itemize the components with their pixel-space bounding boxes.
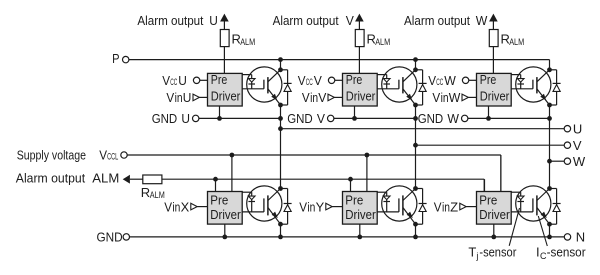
svg-text:V: V [162,73,170,88]
svg-text:CC: CC [436,77,443,87]
svg-text:j: j [475,251,478,261]
svg-text:V: V [314,73,322,88]
svg-text:ALM: ALM [92,170,119,185]
svg-text:-sensor: -sensor [547,245,587,260]
svg-text:X: X [181,199,190,214]
svg-text:ALM: ALM [375,37,390,47]
svg-text:Pre: Pre [210,193,228,208]
svg-text:Alarm output: Alarm output [404,13,470,28]
svg-text:Pre: Pre [479,193,497,208]
svg-text:Pre: Pre [480,72,497,87]
svg-text:R: R [141,185,150,200]
svg-text:V: V [318,90,326,105]
svg-text:Pre: Pre [346,72,363,87]
svg-text:W: W [476,13,488,28]
svg-text:V: V [302,90,310,105]
svg-text:Driver: Driver [210,207,241,222]
svg-text:CCL: CCL [107,152,118,162]
svg-text:Supply voltage: Supply voltage [17,148,86,163]
svg-text:Driver: Driver [479,207,510,222]
svg-text:Driver: Driver [211,88,241,103]
svg-text:CC: CC [306,77,313,87]
svg-text:V: V [573,138,582,153]
svg-text:U: U [573,121,582,136]
svg-text:-sensor: -sensor [479,245,517,260]
svg-text:V: V [99,148,107,163]
svg-text:U: U [178,73,187,88]
svg-text:V: V [298,73,306,88]
svg-text:V: V [428,73,436,88]
svg-text:W: W [444,73,456,88]
svg-text:Driver: Driver [480,88,510,103]
svg-text:N: N [576,230,585,245]
svg-text:GND: GND [287,111,313,126]
svg-text:W: W [449,90,461,105]
svg-text:Alarm output: Alarm output [273,13,339,28]
svg-text:V: V [299,199,307,214]
svg-text:ALM: ALM [150,190,165,200]
svg-text:T: T [468,245,476,260]
svg-text:V: V [346,13,354,28]
svg-text:P: P [112,51,119,66]
svg-text:V: V [166,90,174,105]
svg-text:U: U [183,90,192,105]
svg-text:GND: GND [97,230,123,245]
svg-text:in: in [307,199,315,214]
svg-text:U: U [209,13,218,28]
svg-text:in: in [310,90,318,105]
svg-text:in: in [172,199,180,214]
svg-text:Z: Z [450,199,458,214]
svg-text:CC: CC [170,77,177,87]
svg-text:Pre: Pre [211,72,228,87]
svg-text:GND: GND [418,111,444,126]
svg-text:in: in [175,90,183,105]
svg-text:Alarm output: Alarm output [137,13,203,28]
svg-text:Driver: Driver [345,207,376,222]
svg-text:Alarm output: Alarm output [16,170,86,185]
svg-text:GND: GND [152,111,178,126]
svg-text:Y: Y [316,199,325,214]
svg-text:W: W [447,111,459,126]
svg-text:Driver: Driver [346,88,376,103]
svg-text:ALM: ALM [240,37,255,47]
svg-text:V: V [434,199,442,214]
svg-text:V: V [164,199,172,214]
svg-text:in: in [442,199,450,214]
svg-text:U: U [181,111,190,126]
svg-text:in: in [441,90,449,105]
svg-text:V: V [432,90,440,105]
svg-text:Pre: Pre [345,193,363,208]
svg-text:W: W [573,154,586,169]
svg-text:ALM: ALM [509,37,524,47]
svg-text:V: V [317,111,325,126]
